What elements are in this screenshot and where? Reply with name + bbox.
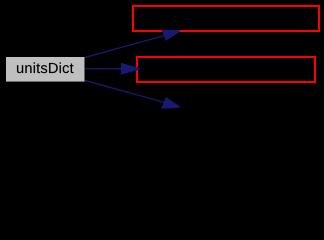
node middle red box bbox=[137, 57, 315, 82]
wire arrow edge 3 to bottom (invisible) box bbox=[85, 80, 180, 109]
wire arrow edge 2 to middle red box bbox=[85, 63, 140, 75]
node unitsDict (gray filled) bbox=[6, 57, 85, 82]
node top red box bbox=[133, 6, 319, 31]
wire arrow edge 1 to top red box bbox=[85, 30, 180, 58]
